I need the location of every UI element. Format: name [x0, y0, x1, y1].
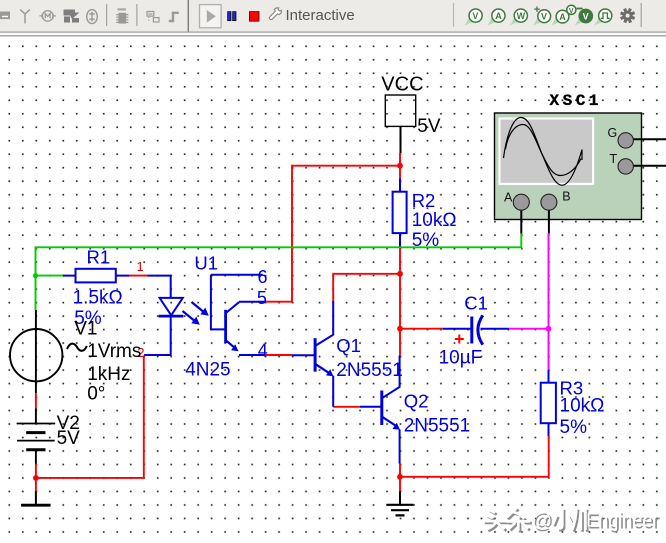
svg-text:V: V — [541, 12, 547, 22]
svg-text:5: 5 — [257, 288, 267, 308]
svg-text:A: A — [495, 11, 502, 21]
svg-text:Q1: Q1 — [336, 335, 361, 356]
svg-text:B: B — [562, 190, 570, 204]
svg-text:V: V — [583, 11, 589, 21]
svg-text:1Vrms: 1Vrms — [87, 341, 141, 362]
svg-text:R2: R2 — [412, 190, 436, 211]
svg-text:2N5551: 2N5551 — [404, 416, 471, 437]
svg-text:5%: 5% — [560, 417, 588, 438]
svg-text:T: T — [610, 152, 618, 166]
svg-text:@: @ — [532, 510, 552, 532]
svg-text:2N5551: 2N5551 — [336, 360, 403, 381]
svg-text:R1: R1 — [87, 247, 111, 268]
svg-text:Engineer: Engineer — [586, 510, 658, 532]
svg-text:6: 6 — [258, 267, 268, 287]
svg-text:Q2: Q2 — [404, 391, 429, 412]
svg-text:5V: 5V — [57, 428, 81, 449]
svg-text:C1: C1 — [464, 293, 488, 314]
svg-text:V: V — [472, 11, 478, 21]
svg-text:U1: U1 — [194, 253, 218, 274]
svg-text:+: + — [534, 4, 540, 16]
svg-text:10kΩ: 10kΩ — [560, 396, 605, 417]
svg-text:XSC1: XSC1 — [550, 92, 602, 110]
svg-text:W: W — [517, 11, 526, 21]
svg-text:A: A — [504, 191, 513, 205]
svg-text:1kHz: 1kHz — [87, 364, 130, 385]
svg-text:V: V — [569, 8, 574, 15]
svg-text:1: 1 — [137, 259, 144, 274]
svg-text:A: A — [559, 12, 566, 22]
svg-text:10µF: 10µF — [439, 348, 483, 369]
svg-text:G: G — [608, 126, 618, 140]
svg-text:0°: 0° — [87, 384, 105, 405]
svg-text:4: 4 — [258, 340, 268, 360]
svg-text:V1: V1 — [74, 318, 97, 339]
svg-text:5V: 5V — [417, 116, 441, 137]
svg-text:Interactive: Interactive — [286, 7, 355, 24]
svg-text:1.5kΩ: 1.5kΩ — [73, 288, 123, 309]
svg-text:10kΩ: 10kΩ — [412, 210, 457, 231]
svg-text:4N25: 4N25 — [185, 360, 230, 381]
svg-text:VCC: VCC — [381, 73, 423, 95]
